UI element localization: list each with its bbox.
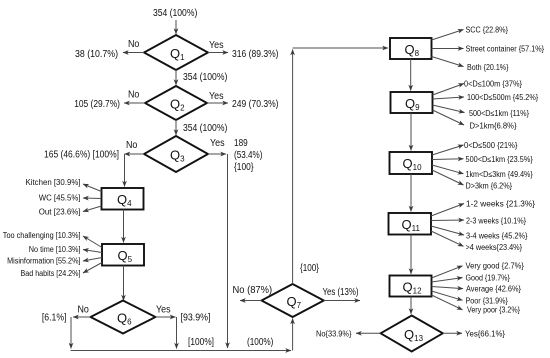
svg-text:1km<D≤3km {49.4%}: 1km<D≤3km {49.4%} [466, 170, 534, 179]
svg-text:38 (10.7%): 38 (10.7%) [75, 49, 118, 60]
wire: Q9 to 0<D<=100m [433, 84, 465, 96]
svg-text:Kitchen [30.9%]: Kitchen [30.9%] [26, 178, 81, 187]
svg-text:1-2 weeks {21.3%}: 1-2 weeks {21.3%} [466, 200, 535, 209]
wire: Q2 no [124, 102, 145, 104]
svg-text:Yes: Yes [156, 305, 171, 316]
wire: Q12 to Very poor [432, 295, 463, 310]
wire: Q9 to 500<D<=1km [433, 105, 465, 113]
wire: Q5 to Bad habits [83, 263, 102, 274]
wire: Q5 to No time [83, 250, 102, 253]
svg-text:165 (46.6%) [100%]: 165 (46.6%) [100%] [44, 150, 119, 161]
process Q12 [390, 276, 432, 297]
wire: Q10 to D>3km [432, 170, 464, 185]
process Q11 [389, 213, 432, 235]
wire: Q4 to Kitchen [83, 184, 102, 192]
svg-text:(53.4%): (53.4%) [234, 150, 262, 161]
wire: Q7 yes right [324, 300, 360, 302]
svg-text:Very poor {3.2%}: Very poor {3.2%} [467, 306, 520, 315]
svg-text:Too challenging [10.3%]: Too challenging [10.3%] [3, 231, 81, 240]
svg-text:354 (100%): 354 (100%) [153, 8, 197, 19]
svg-text:100<D≤500m {45.2%}: 100<D≤500m {45.2%} [467, 93, 538, 102]
svg-text:D>3km {6.2%}: D>3km {6.2%} [466, 182, 513, 191]
svg-text:WC [45.5%]: WC [45.5%] [39, 194, 81, 203]
decision Q1 [144, 35, 208, 70]
svg-text:No: No [128, 39, 140, 50]
svg-text:Yes (13%): Yes (13%) [323, 287, 359, 298]
svg-text:354 (100%): 354 (100%) [183, 72, 227, 83]
wire: Q2 yes [207, 102, 228, 104]
svg-text:No: No [78, 305, 90, 316]
svg-text:Average {42.6%}: Average {42.6%} [466, 285, 521, 294]
wire: Q11 to Q12 [410, 235, 412, 275]
process Q9 [391, 92, 433, 113]
svg-text:500<D≤1km {11%}: 500<D≤1km {11%} [469, 109, 529, 118]
wire: Q7 top up [292, 50, 294, 285]
process Q10 [390, 152, 433, 174]
svg-text:{100}: {100} [300, 263, 320, 274]
svg-text:[100%]: [100%] [188, 337, 214, 348]
wire: Q1 to Q2 [175, 70, 177, 85]
wire: Q12 to Good [432, 278, 463, 282]
wire: Q4 to Q5 [123, 210, 125, 243]
wire: Q10 to Q11 [410, 174, 412, 212]
svg-text:D>1km{6.8%}: D>1km{6.8%} [470, 122, 517, 131]
svg-text:3-4 weeks {45.2%}: 3-4 weeks {45.2%} [466, 232, 528, 241]
wire: Q11 to 2-3 weeks [431, 219, 464, 222]
wire: Q11 to 3-4 weeks [431, 226, 464, 235]
svg-text:No: No [126, 140, 138, 151]
wire: Q1 no [123, 52, 144, 54]
svg-text:Yes{66.1%}: Yes{66.1%} [465, 330, 505, 339]
svg-text:No time [10.3%]: No time [10.3%] [29, 245, 81, 254]
wire: Q6 no down [70, 317, 72, 349]
wire: Q4 to Out [83, 206, 102, 212]
svg-text:2-3 weeks {10.1%}: 2-3 weeks {10.1%} [466, 217, 526, 226]
wire: Q9 to D>1km [433, 110, 465, 125]
wire: to Q8 [293, 47, 388, 49]
svg-text:>4 weeks{23.4%}: >4 weeks{23.4%} [466, 243, 523, 252]
svg-text:Street container {57.1%}: Street container {57.1%} [466, 45, 545, 54]
wire: Q12 to Poor [432, 291, 463, 300]
wire: Q8 to SCC [432, 30, 464, 41]
svg-text:(100%): (100%) [247, 337, 273, 348]
svg-text:[93.9%]: [93.9%] [181, 313, 211, 324]
wire: bus up to Q7 [292, 319, 294, 351]
wire: Q10 to 0<D<=500 [432, 145, 464, 155]
svg-text:No: No [128, 90, 140, 101]
wire: Q6 yes right [156, 316, 176, 318]
svg-text:Very good {2.7%}: Very good {2.7%} [466, 262, 525, 271]
wire: Q10 to 500<D<=1km [432, 158, 464, 161]
decision Q2 [145, 86, 207, 120]
wire: Q5 to Too challenging [83, 236, 102, 248]
wire: Q13 no left [356, 332, 381, 334]
decision Q3 [144, 136, 208, 172]
wire: Q5 to Misinformation [83, 258, 102, 262]
wire: Q7 no left [240, 300, 262, 302]
svg-text:[6.1%]: [6.1%] [42, 313, 67, 324]
svg-text:249 (70.3%): 249 (70.3%) [232, 99, 279, 110]
process Q4 [102, 188, 144, 210]
wire: start to Q1 [175, 20, 177, 34]
wire: Q12 to Very good [432, 266, 463, 278]
wire: Q1 yes [208, 52, 228, 54]
svg-text:354 (100%): 354 (100%) [183, 123, 227, 134]
wire: Q3 yes down to bottom bus [227, 154, 229, 348]
svg-text:189: 189 [234, 138, 248, 149]
svg-text:Yes: Yes [210, 138, 225, 149]
svg-text:316 (89.3%): 316 (89.3%) [232, 49, 279, 60]
process Q8 [390, 38, 432, 59]
decision Q6 [91, 301, 156, 334]
wire: Q13 yes right [443, 332, 462, 334]
svg-text:SCC {22.8%}: SCC {22.8%} [466, 26, 509, 35]
svg-text:500<D≤1km {23.5%}: 500<D≤1km {23.5%} [466, 155, 534, 164]
wire: Q4 to WC [83, 197, 102, 200]
wire: Q9 to 100<D<=500m [433, 97, 465, 99]
svg-text:Good {19.7%}: Good {19.7%} [466, 274, 511, 283]
wire: Q6 no left [73, 316, 91, 318]
wire: Q3 no left [125, 153, 145, 155]
svg-text:No{33.9%}: No{33.9%} [316, 330, 352, 339]
decision Q13 [381, 316, 443, 352]
wire: Q11 to >4 weeks [431, 231, 464, 246]
decision Q7 [262, 284, 324, 317]
wire: Q6 yes down [176, 317, 178, 349]
svg-text:Both {20.1%}: Both {20.1%} [467, 63, 509, 72]
svg-text:Misinformation [55.2%]: Misinformation [55.2%] [7, 257, 80, 266]
wire: Q2 to Q3 [175, 120, 177, 135]
wire: Q8 to Q9 [410, 59, 412, 91]
svg-text:{100}: {100} [234, 162, 254, 173]
wire: bottom bus [71, 350, 292, 352]
wire: Q11 to 1-2 weeks [431, 204, 464, 217]
wire: Q9 to Q10 [410, 113, 412, 151]
svg-text:Bad habits [24.2%]: Bad habits [24.2%] [21, 269, 81, 278]
wire: Q8 to Both [432, 57, 464, 67]
wire: Q3 yes right [208, 153, 226, 155]
wire: Q5 to Q6 [123, 266, 125, 301]
wire: Q10 to 1km<D<=3km [432, 165, 464, 174]
svg-text:Out [23.6%]: Out [23.6%] [39, 208, 81, 217]
wire: Q12 to Q13 [410, 297, 412, 315]
wire: Q8 to Street container [432, 48, 464, 50]
svg-text:0<D≤500 {21%}: 0<D≤500 {21%} [464, 141, 518, 150]
svg-text:Yes: Yes [209, 40, 224, 51]
svg-text:Poor {31.9%}: Poor {31.9%} [466, 297, 509, 306]
svg-text:Yes: Yes [209, 91, 224, 102]
svg-text:0<D≤100m {37%}: 0<D≤100m {37%} [464, 80, 522, 89]
process Q5 [102, 244, 144, 266]
wire: Q12 to Average [432, 287, 464, 289]
svg-text:No (87%): No (87%) [233, 285, 273, 296]
wire: Q3 no down to Q4 [124, 154, 126, 187]
svg-text:105 (29.7%): 105 (29.7%) [74, 99, 120, 110]
